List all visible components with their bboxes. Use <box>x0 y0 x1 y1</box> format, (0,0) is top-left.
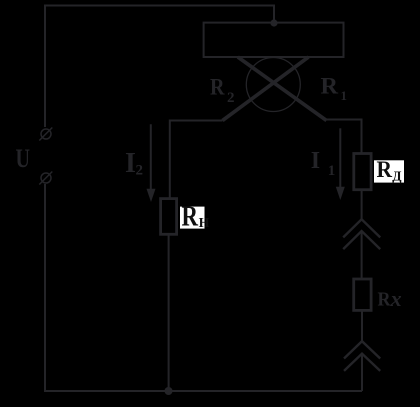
wire below Rx <box>361 310 363 341</box>
logometer circle <box>246 58 300 112</box>
label R2 (left coil) <box>210 74 235 106</box>
svg-text:U: U <box>16 144 31 173</box>
svg-text:R: R <box>377 157 393 182</box>
wire left branch (to Rн) <box>170 121 223 200</box>
wire below Rн <box>168 234 170 391</box>
svg-text:I: I <box>311 148 320 174</box>
rheostat loop rectangle <box>204 23 344 57</box>
probe chevron upper 1 <box>343 219 380 237</box>
svg-text:R: R <box>210 74 225 99</box>
label I2 <box>125 148 143 179</box>
terminal lower (supply U) <box>39 172 52 185</box>
resistor Rн box <box>161 199 177 235</box>
svg-text:x: x <box>390 286 402 311</box>
svg-text:1: 1 <box>341 88 348 103</box>
label patch Rд <box>374 157 404 183</box>
coil lead diagonal left-to-right (R2 coil) <box>238 57 327 121</box>
label patch Rн <box>180 202 210 233</box>
resistor Rд box <box>354 154 371 190</box>
label Rx (measured resistance) <box>378 286 402 311</box>
label I1 <box>311 148 336 179</box>
node top (slider tap junction) <box>270 19 277 26</box>
svg-text:R: R <box>321 73 339 98</box>
probe chevron lower 2 <box>344 354 380 371</box>
svg-text:Д: Д <box>392 169 402 184</box>
svg-text:I: I <box>125 148 136 179</box>
svg-text:1: 1 <box>328 163 336 179</box>
coil lead diagonal right-to-left (R1 coil) <box>223 57 309 121</box>
wire right branch (to Rд) <box>327 120 362 154</box>
current arrow I2 <box>147 124 156 202</box>
probe chevron lower 1 <box>344 341 380 358</box>
svg-text:2: 2 <box>136 163 144 179</box>
terminal upper (supply U) <box>39 128 52 141</box>
wire left lower + bottom horizontal <box>45 184 362 391</box>
wire top horizontal <box>45 6 274 128</box>
svg-text:R: R <box>182 202 199 233</box>
wire chevron to Rx <box>361 231 363 279</box>
wire below Rд <box>361 190 363 220</box>
current arrow I1 <box>336 128 345 200</box>
svg-text:Н: Н <box>199 216 210 231</box>
junction node bottom <box>165 387 173 395</box>
probe chevron upper 2 <box>343 231 380 249</box>
svg-text:R: R <box>378 289 391 311</box>
svg-text:2: 2 <box>227 90 235 106</box>
label R1 (right coil) <box>321 73 348 103</box>
wire bottom right <box>361 354 363 391</box>
resistor Rx box <box>354 279 371 310</box>
